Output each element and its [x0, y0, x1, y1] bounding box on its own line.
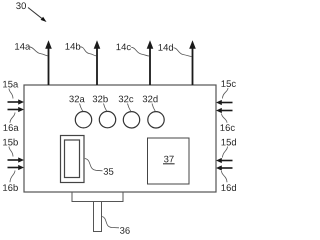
enclosure box	[24, 85, 216, 192]
circle 32c	[123, 112, 139, 128]
label 14a	[15, 43, 30, 50]
arrow 14d (up)	[189, 40, 196, 85]
arrow 14c (up)	[147, 40, 154, 85]
label 32b	[93, 95, 108, 102]
leader 16d	[222, 171, 228, 182]
leader 16a	[10, 113, 15, 123]
component 35 outer rect	[61, 136, 85, 183]
left arrow 16b-2	[8, 165, 25, 170]
label 35	[104, 168, 114, 175]
label 36	[120, 227, 130, 234]
leader 14b	[80, 47, 96, 56]
arrow 14a (up)	[45, 40, 52, 85]
leader 15a	[9, 89, 13, 99]
label 16a	[4, 124, 19, 131]
label 16d	[222, 184, 237, 191]
leader 16c	[222, 114, 228, 123]
mount bar	[72, 192, 123, 202]
label 15d	[222, 139, 237, 146]
tick 32c	[128, 104, 131, 112]
right arrow 15c-1	[216, 100, 233, 105]
component 37 rect	[148, 138, 190, 184]
leader 14a	[29, 47, 48, 56]
label 14d	[159, 44, 174, 51]
left arrow 16a-2	[8, 107, 25, 112]
label 15a	[3, 81, 18, 88]
leader 15d	[223, 147, 228, 158]
tick 32d	[152, 104, 155, 112]
arrow from label 30	[28, 8, 47, 23]
leader 16b	[10, 171, 15, 183]
label 15b	[3, 139, 18, 146]
right arrow 15d-1	[216, 158, 233, 163]
left arrow 15b-1	[8, 157, 25, 162]
left arrow 15a-1	[8, 99, 25, 104]
arrow 14b (up)	[94, 40, 101, 85]
label 30	[16, 2, 26, 9]
label 14b	[66, 43, 81, 50]
label 32c	[119, 96, 134, 103]
leader 15b	[9, 147, 13, 157]
leader 14d	[174, 48, 192, 57]
label 37 underlined	[164, 156, 174, 163]
circle 32d	[148, 112, 164, 128]
label 16b	[3, 184, 18, 191]
tick 32a	[80, 104, 83, 112]
right arrow 16c-2	[216, 108, 233, 113]
component 35 inner rect	[65, 140, 80, 178]
leader 36	[102, 217, 119, 228]
tick 32b	[104, 104, 107, 112]
label 15c	[222, 80, 236, 87]
label 16c	[221, 124, 235, 131]
leader 35	[85, 159, 103, 171]
stem 36	[94, 202, 102, 232]
label 32d	[143, 95, 158, 102]
circle 32a	[75, 112, 91, 128]
leader 15c	[223, 88, 229, 99]
circle 32b	[99, 111, 115, 127]
right arrow 16d-2	[216, 165, 233, 170]
label 32a	[69, 96, 85, 103]
label 14c	[117, 44, 131, 51]
leader 14c	[131, 47, 149, 56]
